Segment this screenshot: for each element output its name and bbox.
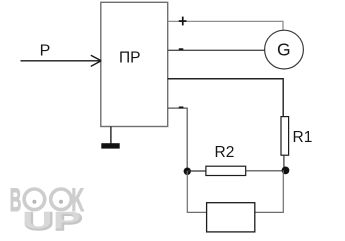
wire node to R2 xyxy=(187,170,206,172)
junction node right xyxy=(282,167,290,175)
load block xyxy=(207,203,255,232)
resistor R1 xyxy=(281,117,289,156)
wire right branch down xyxy=(255,170,283,212)
watermark BOOK logo xyxy=(10,183,85,218)
wire R2 to node xyxy=(246,170,285,172)
junction node left xyxy=(184,168,191,175)
wire plus terminal xyxy=(168,21,283,30)
ground bar xyxy=(101,143,119,148)
watermark UP logo xyxy=(22,206,82,235)
wire to R1 xyxy=(168,79,284,117)
wire lower stub with minus xyxy=(168,108,188,168)
ground lead xyxy=(110,127,112,144)
block ПР xyxy=(101,2,168,126)
wire left branch down xyxy=(187,171,206,212)
input arrow P xyxy=(21,55,102,66)
minus label 2 xyxy=(179,107,184,109)
svg-text:G: G xyxy=(277,39,291,59)
svg-text:ПР: ПР xyxy=(119,50,140,67)
svg-text:B: B xyxy=(10,183,22,218)
wire minus terminal xyxy=(168,49,265,51)
svg-text:UP: UP xyxy=(22,206,81,234)
plus label xyxy=(179,17,187,26)
svg-text:Р: Р xyxy=(40,42,51,59)
svg-text:R1: R1 xyxy=(293,129,313,146)
galvanometer G xyxy=(265,30,304,69)
svg-text:R2: R2 xyxy=(215,144,235,161)
wire R1 to node xyxy=(283,155,285,168)
minus label xyxy=(179,48,184,50)
resistor R2 xyxy=(206,166,246,175)
